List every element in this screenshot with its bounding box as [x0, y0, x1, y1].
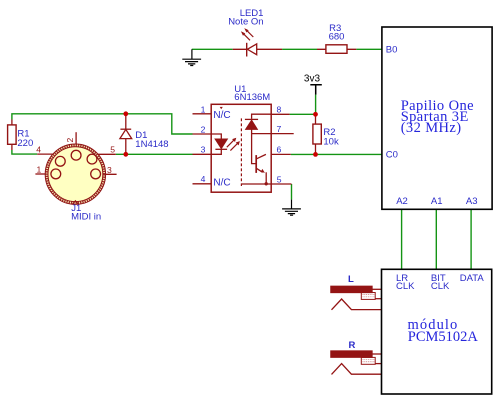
svg-text:A2: A2: [396, 196, 408, 207]
svg-text:C0: C0: [386, 150, 398, 161]
svg-text:5: 5: [277, 175, 282, 185]
svg-text:Note On: Note On: [228, 17, 263, 28]
svg-text:6: 6: [277, 145, 282, 155]
svg-text:N/C: N/C: [213, 178, 230, 189]
svg-text:7: 7: [277, 124, 282, 134]
svg-text:L: L: [348, 274, 354, 285]
svg-text:10k: 10k: [323, 137, 339, 148]
svg-text:CLK: CLK: [396, 281, 415, 292]
svg-text:2: 2: [65, 138, 75, 143]
svg-text:MIDI in: MIDI in: [71, 211, 101, 222]
svg-text:8: 8: [277, 105, 282, 115]
svg-text:1N4148: 1N4148: [135, 139, 168, 150]
svg-text:(32 MHz): (32 MHz): [401, 120, 462, 136]
svg-text:B0: B0: [386, 45, 398, 56]
svg-text:4: 4: [201, 174, 206, 184]
svg-text:A3: A3: [466, 196, 478, 207]
svg-text:2: 2: [201, 125, 206, 135]
svg-text:1: 1: [201, 105, 206, 115]
svg-text:N/C: N/C: [213, 110, 230, 121]
svg-text:CLK: CLK: [431, 281, 450, 292]
svg-text:3v3: 3v3: [304, 73, 321, 84]
svg-text:1: 1: [37, 164, 42, 174]
svg-text:6N136M: 6N136M: [234, 92, 270, 103]
svg-text:DATA: DATA: [460, 273, 485, 284]
svg-text:R: R: [349, 340, 356, 351]
svg-text:3: 3: [107, 165, 112, 175]
svg-text:680: 680: [329, 32, 345, 43]
svg-text:3: 3: [201, 145, 206, 155]
svg-text:4: 4: [36, 145, 41, 155]
svg-text:220: 220: [17, 138, 33, 149]
svg-text:PCM5102A: PCM5102A: [408, 329, 479, 345]
svg-text:5: 5: [110, 144, 115, 154]
svg-text:A1: A1: [431, 196, 443, 207]
